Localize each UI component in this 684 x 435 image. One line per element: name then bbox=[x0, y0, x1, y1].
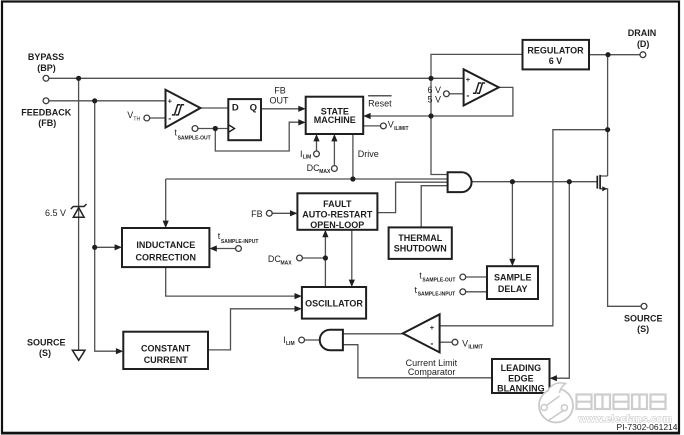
svg-text:-: - bbox=[466, 90, 469, 100]
junction node reset line bbox=[428, 113, 433, 118]
block REGULATOR 6V bbox=[523, 40, 590, 70]
svg-text:FEEDBACK: FEEDBACK bbox=[21, 107, 72, 117]
terminal FB fault input bbox=[266, 210, 272, 216]
wire tSAMPLE-INPUT into INDUCTANCE CORRECTION right bbox=[216, 248, 236, 250]
wire gate node down to LEADING EDGE BLANKING right input bbox=[556, 182, 569, 379]
svg-text:ILIMIT: ILIMIT bbox=[394, 126, 408, 132]
wire AND gate G2 output to ILIM terminal bbox=[305, 339, 321, 341]
terminal SOURCE right bbox=[641, 303, 647, 309]
svg-text:OUT: OUT bbox=[270, 95, 290, 105]
block CONSTANT CURRENT bbox=[123, 332, 208, 369]
svg-text:SAMPLE: SAMPLE bbox=[494, 273, 532, 283]
svg-text:6 V: 6 V bbox=[549, 56, 563, 66]
svg-text:INDUCTANCE: INDUCTANCE bbox=[136, 240, 195, 250]
wire DCMAX up into STATE MACHINE bbox=[333, 140, 335, 166]
wire gate node down into SAMPLE DELAY top bbox=[511, 182, 513, 260]
svg-text:REGULATOR: REGULATOR bbox=[527, 45, 584, 55]
arrow Reset into state machine bbox=[363, 113, 370, 119]
arrow feedback into constant current bbox=[116, 348, 123, 354]
block STATE MACHINE bbox=[306, 97, 364, 134]
zener diode 6.5V bbox=[71, 204, 87, 217]
svg-text:BLANKING: BLANKING bbox=[497, 384, 545, 394]
svg-text:V: V bbox=[388, 120, 394, 130]
svg-text:(FB): (FB) bbox=[38, 118, 56, 128]
wire MOSFET source down to SOURCE terminal bbox=[600, 189, 641, 306]
terminal tSAMPLE-OUT clock bbox=[192, 126, 198, 132]
terminal DCMAX oscillator bbox=[297, 255, 303, 261]
arrow feedback into inductance correction bbox=[115, 244, 122, 250]
svg-text:ILIMIT: ILIMIT bbox=[468, 344, 482, 350]
svg-text:D: D bbox=[232, 103, 239, 114]
svg-text:OPEN-LOOP: OPEN-LOOP bbox=[310, 220, 364, 230]
svg-text:V: V bbox=[127, 110, 133, 120]
current limit comparator U3 bbox=[403, 314, 440, 352]
block THERMAL SHUTDOWN bbox=[389, 227, 452, 259]
block SAMPLE DELAY bbox=[487, 266, 538, 299]
svg-text:SAMPLE-INPUT: SAMPLE-INPUT bbox=[418, 291, 456, 297]
junction node regulator drain bbox=[605, 52, 610, 57]
terminal DRAIN bbox=[640, 52, 646, 58]
block LEADING EDGE BLANKING bbox=[492, 359, 550, 393]
svg-text:+: + bbox=[430, 323, 435, 332]
wire comparator U2 output loop to Reset input of STATE MACHINE bbox=[371, 87, 513, 116]
junction node drive rail bbox=[350, 176, 355, 181]
svg-text:DC: DC bbox=[307, 163, 320, 173]
arrow fault auto-restart into oscillator bbox=[349, 280, 355, 287]
AND gate G2 mirrored current limit gate bbox=[320, 330, 343, 351]
junction node DCMAX oscillator rail bbox=[323, 255, 328, 260]
terminal DCMAX state machine bbox=[332, 166, 338, 172]
svg-text:SOURCE: SOURCE bbox=[624, 313, 663, 323]
comparator U2 with hysteresis bbox=[464, 69, 499, 105]
junction node feedback to inductance correction bbox=[92, 245, 97, 250]
source down-arrow symbol bbox=[72, 350, 85, 360]
svg-text:MAX: MAX bbox=[281, 260, 293, 266]
watermark elecfans logo bbox=[539, 383, 573, 423]
flip-flop U4 D-Q bbox=[228, 99, 261, 140]
block FAULT AUTO-RESTART OPEN-LOOP bbox=[297, 193, 377, 230]
arrow FB OUT into state machine bbox=[298, 106, 305, 112]
wire tSAMPLE-OUT into SAMPLE DELAY bbox=[466, 276, 487, 278]
terminal tSAMPLE-INPUT delay bbox=[460, 289, 466, 295]
svg-text:(S): (S) bbox=[39, 348, 51, 358]
svg-text:LIM: LIM bbox=[286, 341, 295, 347]
junction node sample-out clock bbox=[213, 126, 218, 131]
transistor Q1 power MOSFET bbox=[597, 175, 607, 192]
svg-text:(D): (D) bbox=[637, 39, 650, 49]
arrow into leading edge blanking bbox=[550, 375, 557, 381]
wire current limit comparator output into AND gate G2 bbox=[343, 333, 403, 335]
wire THERMAL SHUTDOWN output to AND gate input 4 bbox=[421, 186, 447, 228]
svg-text:FAULT: FAULT bbox=[323, 199, 352, 209]
wire FEEDBACK line to comparator U1 + input bbox=[49, 100, 166, 102]
arrow drive into inductance correction bbox=[163, 221, 169, 228]
wire AND gate output to MOSFET gate bbox=[472, 181, 597, 183]
svg-text:+: + bbox=[168, 97, 173, 106]
terminal ILIM state machine bbox=[314, 151, 320, 157]
wire drive rail down into INDUCTANCE CORRECTION top bbox=[165, 179, 167, 222]
terminal tSAMPLE-INPUT inductance bbox=[236, 246, 242, 252]
svg-text:SAMPLE-INPUT: SAMPLE-INPUT bbox=[221, 239, 259, 245]
arrow gate drive into sample delay bbox=[509, 259, 515, 266]
svg-text:SAMPLE-OUT: SAMPLE-OUT bbox=[178, 136, 211, 142]
svg-text:(S): (S) bbox=[637, 324, 649, 334]
wire FEEDBACK branch into INDUCTANCE CORRECTION left bbox=[95, 246, 116, 248]
terminal VILIMIT state machine bbox=[381, 123, 387, 129]
wire FB input into FAULT AUTO-RESTART bbox=[272, 212, 291, 214]
junction node on bypass line bbox=[76, 76, 81, 81]
wire sample loop from clock node to STATE MACHINE input 2 bbox=[215, 122, 299, 151]
wire tSAMPLE-INPUT into SAMPLE DELAY bbox=[466, 291, 487, 293]
junction node gate to LEB bbox=[567, 179, 572, 184]
junction node on feedback line bbox=[92, 98, 97, 103]
wire Q output FB OUT to STATE MACHINE input 1 bbox=[261, 108, 299, 110]
wire VILIMIT output from STATE MACHINE bbox=[363, 125, 380, 127]
wire REGULATOR left to bypass rail and down to AND gate input 1 bbox=[431, 54, 523, 174]
arrow ILIM into state machine bbox=[313, 134, 319, 141]
svg-text:CORRECTION: CORRECTION bbox=[136, 253, 197, 263]
wire INDUCTANCE CORRECTION output to OSCILLATOR input 1 bbox=[166, 267, 296, 296]
terminal ILIM gate output bbox=[299, 337, 305, 343]
svg-text:PI-7302-061214: PI-7302-061214 bbox=[617, 422, 678, 432]
wire vertical FEEDBACK branch down to CONSTANT CURRENT input bbox=[95, 101, 117, 351]
terminal FEEDBACK bbox=[43, 98, 49, 104]
arrow DCMAX into fault auto-restart bbox=[322, 230, 328, 237]
AND gate G1 output driver bbox=[448, 172, 472, 192]
svg-text:6 V: 6 V bbox=[427, 85, 441, 95]
svg-text:SAMPLE-OUT: SAMPLE-OUT bbox=[422, 277, 455, 283]
svg-text:6.5 V: 6.5 V bbox=[45, 208, 66, 218]
wire FAULT AUTO-RESTART output to AND gate input 3 bbox=[377, 182, 447, 212]
svg-text:5 V: 5 V bbox=[427, 95, 441, 105]
junction node gate to sample delay bbox=[510, 179, 515, 184]
wire CONSTANT CURRENT output to OSCILLATOR input 2 bbox=[208, 309, 296, 350]
svg-text:+: + bbox=[466, 75, 471, 84]
wire tSAMPLE-OUT to flip-flop clock bbox=[198, 128, 228, 130]
svg-text:SOURCE: SOURCE bbox=[27, 337, 66, 347]
terminal VTH bbox=[144, 115, 150, 121]
svg-text:MACHINE: MACHINE bbox=[314, 115, 356, 125]
terminal tSAMPLE-OUT delay bbox=[460, 274, 466, 280]
svg-text:DC: DC bbox=[268, 254, 281, 264]
svg-text:V: V bbox=[462, 338, 468, 348]
svg-text:Drive: Drive bbox=[358, 149, 379, 159]
svg-text:CONSTANT: CONSTANT bbox=[141, 344, 191, 354]
svg-text:(BP): (BP) bbox=[37, 63, 56, 73]
svg-text:OSCILLATOR: OSCILLATOR bbox=[305, 299, 363, 309]
terminal 6V 5V reference bbox=[444, 91, 450, 97]
junction node drain sense bbox=[605, 127, 610, 132]
arrow FB into fault auto-restart bbox=[290, 210, 297, 216]
terminal VILIMIT comparator bbox=[452, 339, 458, 345]
svg-text:BYPASS: BYPASS bbox=[28, 52, 64, 62]
wire vertical from BYPASS node through zener to source arrow bbox=[78, 78, 80, 350]
block OSCILLATOR bbox=[302, 287, 366, 319]
svg-text:-: - bbox=[430, 338, 433, 348]
svg-text:SHUTDOWN: SHUTDOWN bbox=[394, 244, 447, 254]
wire drain vertical to MOSFET drain bbox=[600, 55, 607, 176]
block INDUCTANCE CORRECTION bbox=[122, 228, 209, 267]
svg-text:Q: Q bbox=[250, 103, 257, 114]
svg-text:FB: FB bbox=[251, 209, 263, 219]
wire BYPASS line to comparator U2 + input bbox=[49, 77, 464, 79]
arrow constant current into oscillator bbox=[295, 306, 302, 312]
wire REGULATOR right to DRAIN terminal bbox=[589, 54, 640, 56]
svg-text:FB: FB bbox=[274, 86, 286, 96]
svg-text:THERMAL: THERMAL bbox=[398, 233, 442, 243]
wire VTH input to comparator U1 - input bbox=[150, 117, 166, 119]
arrow inductance correction into oscillator bbox=[295, 293, 302, 299]
wire 6V/5V reference into comparator U2 - input bbox=[449, 93, 463, 95]
svg-text:EDGE: EDGE bbox=[508, 373, 534, 383]
wire DCMAX node to fault box and oscillator bbox=[303, 237, 326, 288]
wire comparator U1 output to D input of flip-flop bbox=[200, 107, 228, 109]
svg-text:TH: TH bbox=[133, 116, 140, 122]
wire FAULT AUTO-RESTART down to OSCILLATOR top bbox=[351, 230, 353, 281]
svg-text:CURRENT: CURRENT bbox=[144, 355, 189, 365]
arrow sample loop into state machine bbox=[298, 119, 305, 125]
arrow tSAMPLE-INPUT into inductance correction bbox=[209, 245, 216, 251]
svg-text:MAX: MAX bbox=[319, 169, 331, 175]
svg-text:-: - bbox=[168, 114, 171, 124]
watermark CJK glyph placeholders bbox=[577, 395, 666, 410]
svg-text:DELAY: DELAY bbox=[498, 284, 528, 294]
svg-text:Reset: Reset bbox=[368, 98, 392, 108]
wire Drive from STATE MACHINE down to drive rail bbox=[352, 134, 354, 179]
junction node bypass regulator bbox=[428, 76, 433, 81]
svg-text:LEADING: LEADING bbox=[501, 363, 542, 373]
svg-text:AUTO-RESTART: AUTO-RESTART bbox=[302, 209, 373, 219]
svg-text:Comparator: Comparator bbox=[408, 367, 456, 377]
arrow DCMAX into state machine bbox=[331, 134, 337, 141]
wire ILIM up into STATE MACHINE bbox=[316, 140, 318, 151]
comparator U1 with hysteresis bbox=[166, 90, 201, 128]
svg-text:DRAIN: DRAIN bbox=[628, 28, 657, 38]
wire drain sense line to current limit comparator + input bbox=[440, 130, 608, 326]
wire drive rail to AND gate input 2 bbox=[166, 178, 448, 180]
wire VILIMIT reference into current limit comparator - input bbox=[440, 341, 452, 343]
svg-text:LIM: LIM bbox=[303, 155, 312, 161]
wire LEADING EDGE BLANKING output into AND gate G2 bbox=[343, 345, 492, 378]
terminal BYPASS bbox=[43, 75, 49, 81]
